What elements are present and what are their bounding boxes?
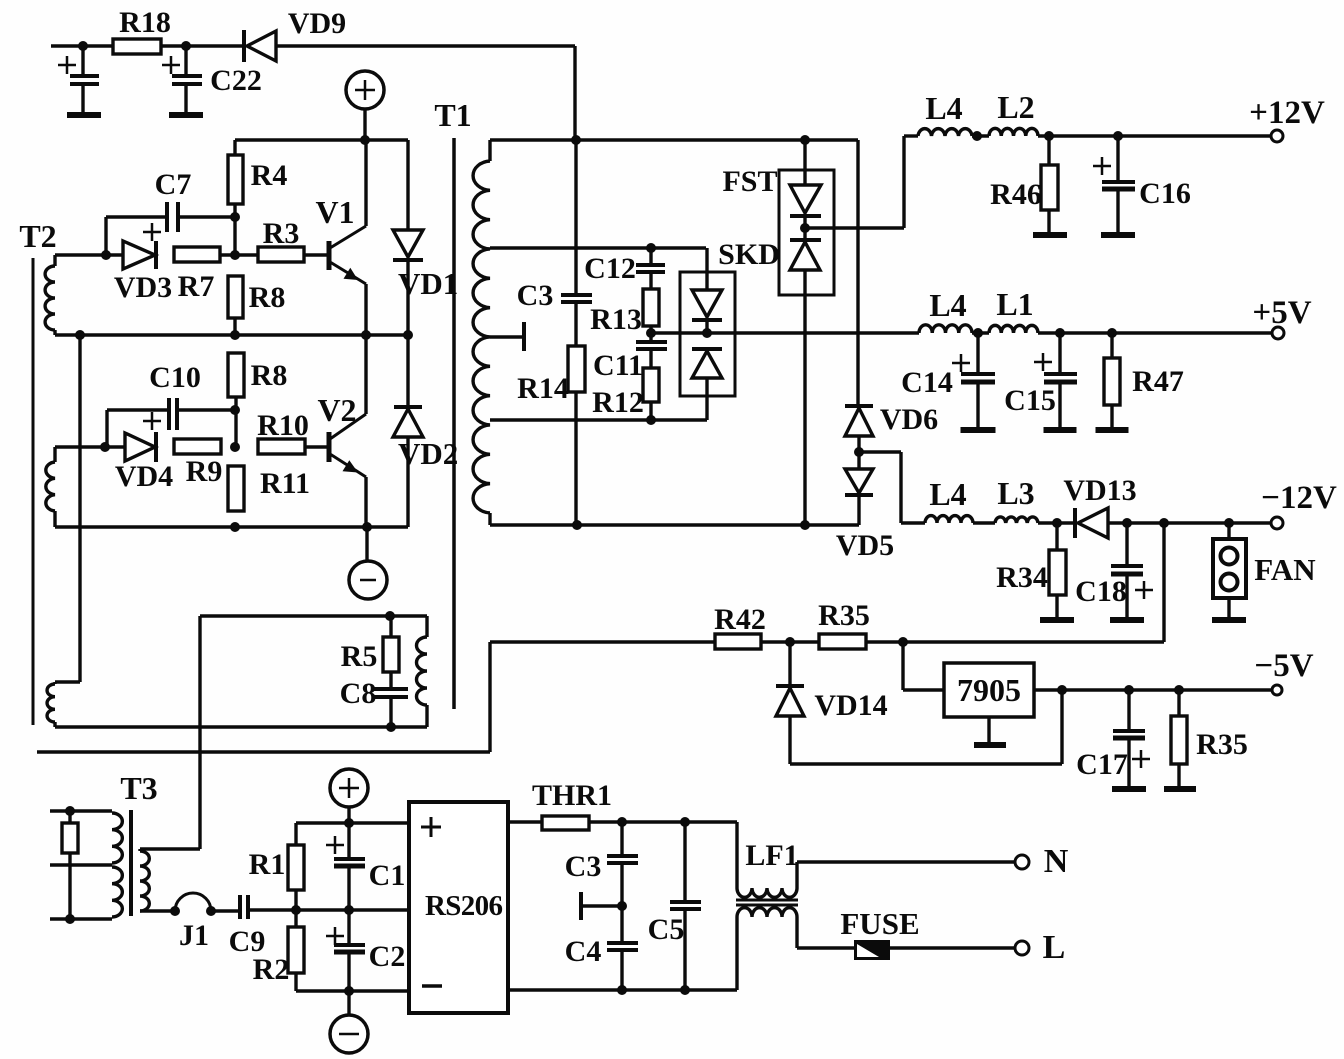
wire R42 to R35 <box>761 640 819 643</box>
node rail B at R14 column <box>572 520 582 530</box>
node R5 top junction <box>385 611 395 621</box>
wire bottom rail to - terminal <box>365 527 368 561</box>
svg-text:VD3: VD3 <box>114 271 172 304</box>
resistor R13 <box>643 289 659 326</box>
node C12 top junction <box>646 243 656 253</box>
diode lower of secondary pair <box>692 347 722 351</box>
svg-text:R1: R1 <box>249 848 286 881</box>
ground (T-bar) under C14 <box>961 427 996 433</box>
svg-text:L1: L1 <box>996 286 1033 322</box>
resistor R10 <box>258 439 305 454</box>
svg-text:R14: R14 <box>517 372 569 405</box>
wire feedback drop (x80) <box>78 335 81 682</box>
node 7905 input junction <box>898 637 908 647</box>
capacitor C15 <box>1058 333 1061 373</box>
node C1/C2 mid junction <box>344 905 354 915</box>
wire -12V rail start <box>901 521 925 524</box>
inductor L4 (-12V) <box>925 516 973 523</box>
svg-text:C8: C8 <box>340 677 377 710</box>
svg-text:L4: L4 <box>929 287 966 323</box>
svg-text:THR1: THR1 <box>532 779 612 812</box>
node FST/SKD midpoint <box>800 223 810 233</box>
wire mid tap mark <box>579 892 583 920</box>
node L4/L2 junction <box>972 131 982 141</box>
svg-text:C1: C1 <box>369 859 406 892</box>
wire R8 upper to mid rail <box>233 318 236 335</box>
node C1 top junction <box>344 818 354 828</box>
wire -12V to feedback resistors <box>1162 523 1165 642</box>
terminal L <box>1015 941 1029 955</box>
terminal -5V <box>1272 685 1282 695</box>
wire LF1 to N terminal <box>797 860 1015 863</box>
wire DC+ top <box>296 821 409 824</box>
node bottom rail at R11 <box>230 522 240 532</box>
diode VD13 <box>1073 508 1077 538</box>
transformer T1 primary winding <box>488 140 491 161</box>
node C3/C4 mid junction <box>617 901 627 911</box>
wire L3 to VD13 <box>1038 521 1075 524</box>
wire VD14 bypass to -5V output <box>790 762 1062 765</box>
node R12 bottom junction <box>646 415 656 425</box>
wire L4 to L3 <box>973 521 995 524</box>
node C10/R8 junction <box>230 405 240 415</box>
svg-text:C12: C12 <box>584 252 636 285</box>
svg-text:R9: R9 <box>186 455 223 488</box>
resistor R9 <box>174 439 221 454</box>
capacitor C11 <box>636 340 667 344</box>
svg-text:VD14: VD14 <box>814 689 887 722</box>
transistor V2 <box>327 432 332 462</box>
node secondary pair midpoint <box>702 328 712 338</box>
transformer T3 primary winding upper <box>112 813 122 863</box>
resistor R8 (upper) <box>228 276 243 318</box>
svg-text:7905: 7905 <box>957 672 1021 708</box>
polarity + mark of C10 <box>143 420 161 423</box>
node R46 junction <box>1044 131 1054 141</box>
rectifier box (dual diode, secondary) <box>680 272 735 396</box>
svg-text:R3: R3 <box>263 217 300 250</box>
resistor R46 <box>1047 136 1050 165</box>
wire 7905 input <box>901 642 904 690</box>
ground (T-bar) under R46 <box>1033 232 1067 238</box>
node VD3 anode junction <box>101 250 111 260</box>
node C22 junction <box>181 41 191 51</box>
wire T2 winding1 to VD3 <box>55 253 123 256</box>
capacitor C22 <box>184 46 187 74</box>
capacitor C3 (input filter) <box>620 822 623 855</box>
capacitor C7 <box>106 215 167 218</box>
node VD14 bypass junction <box>1057 685 1067 695</box>
node C5 bottom junction <box>680 985 690 995</box>
wire T3 secondary top to feedback loop <box>140 847 200 850</box>
ground (T-bar) under C16 <box>1101 232 1135 238</box>
capacitor C16 <box>1116 136 1119 180</box>
wire -5V output rail <box>1034 688 1271 691</box>
transformer T2 core <box>32 258 35 725</box>
svg-text:VD5: VD5 <box>836 529 894 562</box>
svg-text:R35: R35 <box>818 599 870 632</box>
wire T1 tap1 <box>490 246 706 249</box>
node mid rail at VD1/VD2 <box>403 330 413 340</box>
wire L4 to L2 <box>972 134 989 137</box>
svg-text:T3: T3 <box>120 770 157 806</box>
svg-text:LF1: LF1 <box>745 839 798 872</box>
node C4 bottom junction <box>617 985 627 995</box>
svg-text:C2: C2 <box>369 940 406 973</box>
inductor L3 <box>995 517 1038 523</box>
wire RS206 + output <box>508 820 542 823</box>
line filter LF1 upper winding <box>735 822 738 888</box>
svg-text:C4: C4 <box>565 935 602 968</box>
node C3 top junction <box>617 817 627 827</box>
thermistor THR1 <box>542 816 589 830</box>
svg-text:C22: C22 <box>210 64 262 97</box>
svg-text:RS206: RS206 <box>425 890 503 922</box>
ground (T-bar) under R34 <box>1040 617 1074 623</box>
wire + terminal to top rail <box>363 109 366 140</box>
wire top rail (R4 to VD1) <box>235 138 408 141</box>
wire FUSE to L terminal <box>890 946 1015 949</box>
svg-text:J1: J1 <box>179 919 209 952</box>
svg-text:R47: R47 <box>1132 365 1184 398</box>
wire R18 input <box>51 44 113 47</box>
resistor R35 (output load) <box>1177 690 1180 716</box>
wire T1 tap2 (rail A) <box>490 418 707 421</box>
resistor (unlabeled, across T3 primary) <box>68 811 71 823</box>
transformer T2 winding 3 <box>55 680 80 683</box>
jumper J1 <box>170 906 180 916</box>
svg-text:VD6: VD6 <box>880 403 938 436</box>
wire feedback to R42 <box>490 640 715 643</box>
line filter LF1 lower winding <box>735 917 738 990</box>
node C2 bottom junction <box>344 986 354 996</box>
resistor R47 <box>1110 333 1113 358</box>
svg-text:R34: R34 <box>996 561 1048 594</box>
svg-text:VD1: VD1 <box>398 266 458 301</box>
diode SKD <box>803 216 806 240</box>
wire T3 primary bottom <box>50 917 112 920</box>
regulator 7905 <box>944 663 1034 717</box>
node C18 junction <box>1122 518 1132 528</box>
svg-text:C18: C18 <box>1075 575 1127 608</box>
ground (T-bar) under C22 <box>169 112 203 118</box>
svg-text:C5: C5 <box>648 913 685 946</box>
wire L4 to L1 <box>972 331 989 334</box>
capacitor C1 <box>347 823 350 858</box>
transformer T2 feedback winding <box>425 616 428 637</box>
svg-text:L: L <box>1043 929 1066 966</box>
wire R10 to V2 base <box>305 445 329 448</box>
wire R18 to VD9 <box>161 44 244 47</box>
fuse FUSE <box>854 940 890 960</box>
ground (T-bar) under C18 <box>1110 617 1144 623</box>
ground (T-bar) under 7905 <box>974 742 1006 748</box>
node T3 resistor bottom <box>65 914 75 924</box>
capacitor C18 <box>1125 523 1128 564</box>
transformer T2 winding 2 <box>53 447 56 462</box>
node C16 junction <box>1113 131 1123 141</box>
ground (T-bar) under left capacitor <box>67 112 101 118</box>
node VD4 anode junction <box>100 442 110 452</box>
transformer T1 core <box>452 138 456 709</box>
node R18 left junction <box>78 41 88 51</box>
wire C7 loop down to VD3 anode <box>104 217 107 255</box>
capacitor C9 <box>211 909 239 912</box>
svg-text:C11: C11 <box>593 349 643 382</box>
capacitor C14 <box>976 333 979 373</box>
node C17 junction <box>1124 685 1134 695</box>
wire LF1 to FUSE <box>797 946 854 949</box>
wire T1 center tap mark <box>490 335 522 338</box>
ground (T-bar) under C15 <box>1044 427 1077 433</box>
connector FAN <box>1227 523 1230 539</box>
svg-text:R4: R4 <box>251 159 288 192</box>
diode FST <box>803 140 806 185</box>
svg-text:−12V: −12V <box>1261 480 1337 516</box>
resistor R42 <box>715 634 761 649</box>
node R9/R10/R11 junction <box>230 442 240 452</box>
transistor V1 <box>327 241 332 270</box>
node mid rail at x80 <box>75 330 85 340</box>
resistor R4 <box>233 140 236 155</box>
terminal N <box>1015 855 1029 869</box>
wire C10 loop down to VD4 anode <box>105 410 108 447</box>
svg-text:R35: R35 <box>1196 728 1248 761</box>
node R13/C11 junction <box>646 328 656 338</box>
diode VD4 <box>125 433 155 461</box>
diode VD5 <box>857 452 860 469</box>
wire drive return <box>37 750 490 753</box>
svg-text:+12V: +12V <box>1249 95 1325 131</box>
wire THR1 to LF1 <box>589 820 737 823</box>
wire mid rail (T2 to VD1/VD2) <box>55 333 408 336</box>
wire R35 to -12V drop <box>866 640 1164 643</box>
capacitor C8 <box>389 672 392 687</box>
svg-text:T1: T1 <box>434 97 471 133</box>
node mid rail at V1 emitter <box>361 330 371 340</box>
node R35 output junction <box>1174 685 1184 695</box>
svg-text:N: N <box>1044 843 1069 880</box>
wire V1 collector to top rail <box>364 140 367 226</box>
wire R4 to C7/R8 node <box>233 204 236 255</box>
svg-text:−5V: −5V <box>1254 648 1313 684</box>
wire T2 winding2 to VD4 <box>55 445 125 448</box>
capacitor C10 <box>107 408 169 411</box>
svg-text:C15: C15 <box>1004 384 1056 417</box>
svg-text:+5V: +5V <box>1252 295 1311 331</box>
wire RS206 - output <box>508 988 737 991</box>
resistor R11 <box>228 466 244 511</box>
wire R7 to R3 <box>220 253 258 256</box>
positive terminal (+) circle (bridge) <box>330 769 368 807</box>
rectifier box FST/SKD <box>779 170 834 295</box>
node feedback takeoff junction <box>1159 518 1169 528</box>
inductor L2 <box>989 128 1038 136</box>
wire bottom-left rail <box>55 525 408 528</box>
inductor L4 (+12V) <box>918 129 972 136</box>
wire +12V rail start <box>904 134 918 137</box>
node T1 top at FST column <box>800 135 810 145</box>
terminal +12V <box>1271 130 1283 142</box>
wire top rail corner down to VD6 <box>856 140 859 406</box>
svg-text:V2: V2 <box>317 392 356 428</box>
wire +5V rail to terminal <box>1038 331 1271 334</box>
diode VD2 <box>406 335 409 407</box>
diode VD6 <box>845 404 873 408</box>
bridge rectifier RS206 <box>409 802 508 1013</box>
resistor R7 <box>174 247 220 262</box>
diode VD9 <box>242 30 246 62</box>
wire DC- bottom <box>296 989 409 992</box>
ground (T-bar) under R35 <box>1164 786 1196 792</box>
svg-text:R8: R8 <box>251 359 288 392</box>
node bottom rail at V2 emitter <box>362 522 372 532</box>
svg-text:L3: L3 <box>997 475 1034 511</box>
svg-text:C3: C3 <box>517 279 554 312</box>
capacitor C17 <box>1127 690 1130 730</box>
resistor R3 <box>258 247 304 262</box>
wire feedback loop bottom <box>55 725 427 728</box>
ground (T-bar) under C17 <box>1112 786 1146 792</box>
wire V2 emitter to bottom rail <box>364 477 367 527</box>
svg-text:C14: C14 <box>901 366 953 399</box>
resistor R12 <box>643 368 659 402</box>
node R34 junction <box>1052 518 1062 528</box>
svg-text:C10: C10 <box>149 361 201 394</box>
node rail B at FST column <box>800 520 810 530</box>
node R1/R2 junction <box>291 905 301 915</box>
transformer T3 secondary winding <box>138 849 141 851</box>
wire feedback loop top <box>200 614 427 617</box>
capacitor C5 <box>683 822 686 901</box>
resistor R1 <box>294 823 297 845</box>
node R7/R3/R8 junction <box>230 250 240 260</box>
wire VD9 to T1 top <box>276 44 575 47</box>
capacitor C4 <box>620 906 623 942</box>
wire -12V rail to terminal <box>1108 521 1271 524</box>
terminal +5V <box>1272 327 1284 339</box>
node VD14 junction <box>785 637 795 647</box>
resistor R14 <box>574 302 577 346</box>
inductor L4 (+5V) <box>919 325 972 333</box>
wire VD junction to -12V filter <box>859 450 901 453</box>
wire T3 primary top <box>50 809 112 812</box>
wire C9 node to RS206 <box>288 908 409 911</box>
wire +5V rail from R13 node <box>651 331 919 334</box>
wire T1 bottom (rail B) <box>490 523 859 526</box>
resistor R5 <box>389 616 392 637</box>
wire FST midpoint to +12V filter <box>805 226 904 229</box>
svg-text:T2: T2 <box>19 218 56 254</box>
node FAN junction <box>1224 518 1234 528</box>
inductor L1 <box>989 325 1038 333</box>
resistor R2 <box>294 910 297 927</box>
node R47 junction <box>1107 328 1117 338</box>
svg-text:R10: R10 <box>257 409 309 442</box>
resistor R34 <box>1055 523 1058 550</box>
svg-text:R18: R18 <box>119 6 171 39</box>
svg-text:C3: C3 <box>565 850 602 883</box>
diode upper of secondary pair <box>705 248 708 290</box>
svg-text:C7: C7 <box>155 168 192 201</box>
svg-text:L2: L2 <box>997 89 1034 125</box>
node C8 bottom junction <box>386 722 396 732</box>
svg-text:R13: R13 <box>590 303 642 336</box>
svg-text:SKD: SKD <box>718 238 780 271</box>
svg-text:R2: R2 <box>253 953 290 986</box>
line filter LF1 core <box>736 899 798 902</box>
svg-text:VD13: VD13 <box>1063 474 1136 507</box>
node C7/R4 junction <box>230 212 240 222</box>
transformer T3 core <box>129 810 133 916</box>
wire V1 emitter to mid rail <box>364 284 367 335</box>
terminal -12V <box>1271 517 1283 529</box>
wire 7905 ground pin <box>987 717 990 743</box>
svg-text:FUSE: FUSE <box>840 906 919 941</box>
capacitor C3 <box>574 140 577 294</box>
capacitor C2 <box>347 910 350 944</box>
resistor R18 <box>113 39 161 54</box>
capacitor C12 <box>649 248 652 264</box>
node C5 top junction <box>680 817 690 827</box>
node T3 resistor top <box>65 806 75 816</box>
svg-text:FAN: FAN <box>1254 552 1315 587</box>
node VD6/VD5 junction <box>854 447 864 457</box>
svg-text:R7: R7 <box>178 270 215 303</box>
svg-text:L4: L4 <box>929 476 966 512</box>
svg-text:C16: C16 <box>1139 177 1191 210</box>
svg-text:V1: V1 <box>315 194 354 230</box>
svg-text:R42: R42 <box>714 603 766 636</box>
diode VD1 <box>406 140 409 230</box>
node C15 junction <box>1055 328 1065 338</box>
node top rail junction <box>360 135 370 145</box>
capacitor (electrolytic, unlabeled) left of R18 <box>81 46 84 74</box>
wire +12V rail to terminal <box>1038 134 1271 137</box>
svg-text:VD2: VD2 <box>398 436 458 471</box>
diode VD3 <box>123 241 155 269</box>
svg-text:VD9: VD9 <box>288 7 346 40</box>
svg-text:L4: L4 <box>925 90 962 126</box>
ground (T-bar) under FAN <box>1212 617 1246 623</box>
transformer T3 primary winding lower <box>112 867 122 917</box>
svg-text:R5: R5 <box>341 640 378 673</box>
node mid rail at R8 <box>230 330 240 340</box>
ground (T-bar) under R47 <box>1096 427 1129 433</box>
svg-text:FST: FST <box>722 165 777 198</box>
transformer T2 winding 1 <box>53 255 56 266</box>
positive supply terminal (+) circle <box>346 71 384 109</box>
svg-text:R12: R12 <box>592 386 644 419</box>
negative supply terminal (-) circle <box>349 561 387 599</box>
wire T3 primary mid tap <box>50 863 112 866</box>
negative terminal (-) circle (bridge) <box>330 1015 368 1053</box>
svg-text:R46: R46 <box>990 178 1042 211</box>
node T1 top at C3 column <box>571 135 581 145</box>
svg-text:R11: R11 <box>260 467 310 500</box>
resistor R35 (feedback) <box>819 634 866 649</box>
diode VD14 <box>788 642 791 686</box>
wire R8 lower to VD4 row <box>234 397 237 447</box>
svg-text:R8: R8 <box>249 281 286 314</box>
wire V2 collector to mid rail <box>364 335 367 414</box>
wire T1 top rail <box>490 138 858 141</box>
resistor R8 (lower) <box>228 353 244 397</box>
svg-text:VD4: VD4 <box>115 460 173 493</box>
svg-text:C17: C17 <box>1076 748 1128 781</box>
polarity + mark of C7 <box>143 231 161 234</box>
wire R3 to V1 base <box>304 253 329 256</box>
